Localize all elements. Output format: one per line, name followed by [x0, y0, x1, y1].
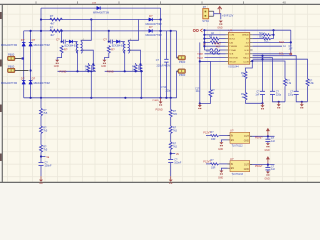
- capacitor C 272: [270, 91, 282, 97]
- resistor col41 c: [40, 145, 48, 152]
- wire top net bus: [204, 29, 291, 31]
- connector P600 no2: [8, 65, 29, 73]
- svg-text:C?: C?: [103, 37, 107, 41]
- svg-text:+5VF12V: +5VF12V: [222, 13, 233, 17]
- power +5V symbol: [218, 7, 234, 18]
- junction conn2: [30, 69, 32, 71]
- capacitor col170: [168, 159, 182, 165]
- pin stubs left: [226, 35, 253, 62]
- wire col 296.2 lower: [296, 95, 307, 102]
- resistor col170 a: [169, 110, 177, 117]
- svg-text:7k5: 7k5: [173, 146, 178, 149]
- wire bottom bus: [24, 97, 177, 99]
- svg-text:OUT: OUT: [244, 136, 249, 138]
- resistor R 245 a: [241, 71, 247, 78]
- junction dots stage1: [61, 41, 63, 43]
- svg-text:D?: D?: [93, 1, 97, 5]
- resistor col170 c: [169, 142, 177, 149]
- svg-text:TSB09B: TSB09B: [229, 46, 237, 48]
- svg-text:1uF: 1uF: [289, 49, 294, 51]
- ground stage1: [54, 60, 59, 68]
- wire mid rail: [170, 31, 172, 98]
- ground fuse: [217, 21, 222, 30]
- capacitor reg2 out: [265, 165, 275, 171]
- red circle mark below: [290, 53, 292, 55]
- wire conn2 feed: [177, 71, 178, 98]
- wire reg2 input: [206, 163, 210, 165]
- svg-text:P600: P600: [179, 73, 186, 77]
- svg-text:MRA4007T3M: MRA4007T3M: [146, 23, 162, 26]
- junction aux: [199, 60, 201, 62]
- svg-text:1uF: 1uF: [271, 140, 276, 143]
- svg-text:SYS3: SYS3: [202, 19, 209, 23]
- junction dots stage2: [108, 41, 110, 43]
- power +5V reg2: [266, 156, 270, 165]
- svg-text:R?: R?: [64, 48, 68, 52]
- svg-text:7k5: 7k5: [43, 148, 48, 151]
- wire reg1 gnd: [221, 140, 227, 142]
- wire stage2 secondary bottom: [128, 50, 140, 64]
- transformer T1: [75, 39, 85, 53]
- diode zener stage1: [65, 40, 79, 48]
- svg-text:GND: GND: [218, 149, 223, 151]
- wire col41: [40, 98, 42, 109]
- wire stage2 drop to bus: [140, 71, 142, 98]
- svg-text:220p: 220p: [276, 93, 282, 96]
- svg-text:MRA4007T3M: MRA4007T3M: [34, 44, 50, 47]
- wire vert i2c left: [273, 30, 275, 38]
- resistor R 307: [306, 79, 314, 86]
- wire row 57.5 to cap 272: [253, 57, 273, 59]
- svg-text:T2A?: T2A?: [197, 57, 203, 60]
- wire col 285: [284, 86, 286, 102]
- resistor stage2 gate: [132, 64, 137, 71]
- wire stage1 drop to bus: [90, 71, 92, 98]
- blue label cluster right of IC: [259, 33, 293, 51]
- transistor Q1 stage1: [92, 65, 95, 71]
- resistor i2c pullup 2: [263, 38, 271, 40]
- ground rc 2: [277, 102, 281, 109]
- resistor R 245 b: [241, 93, 247, 100]
- svg-text:MRA4007T3M: MRA4007T3M: [1, 82, 17, 85]
- ground reg2 out: [265, 172, 270, 181]
- wire row 61 to resistor 285: [253, 61, 285, 79]
- svg-text:4k7: 4k7: [50, 22, 55, 26]
- wire stage1 sense resistor leg: [87, 63, 89, 64]
- svg-text:7k5: 7k5: [173, 130, 178, 133]
- wire pullup row1: [253, 34, 263, 36]
- wire col170 net stub: [171, 153, 176, 155]
- wire stage1 top: [62, 41, 63, 43]
- svg-text:U?: U?: [230, 157, 234, 161]
- svg-text:P5Va?: P5Va?: [255, 165, 263, 168]
- resistor reg1: [210, 131, 218, 141]
- wire vert i2c right: [290, 30, 292, 54]
- svg-text:C1?: C1?: [195, 88, 200, 90]
- svg-text:C?: C?: [56, 37, 60, 41]
- bridge diode D5: [29, 38, 50, 47]
- svg-text:GND: GND: [244, 169, 249, 171]
- svg-text:220p: 220p: [166, 90, 172, 93]
- capacitor col41: [39, 162, 53, 168]
- svg-text:4k7: 4k7: [216, 45, 221, 48]
- capacitor reg1 out: [265, 137, 275, 143]
- junction reg1 out: [267, 135, 269, 137]
- svg-text:D?: D?: [32, 76, 36, 80]
- wire stage2 input drop: [108, 31, 110, 42]
- svg-text:U?: U?: [230, 129, 234, 133]
- net cluster labels: [203, 42, 222, 48]
- wire bridge right leg: [30, 31, 32, 98]
- wire stage2 bottom: [105, 70, 143, 72]
- wire stage1 secondary bottom: [81, 50, 93, 64]
- junction dots on buses: [30, 18, 172, 99]
- ground reg1 left: [218, 142, 223, 151]
- wire aux branch: [200, 61, 211, 89]
- svg-text:1uF: 1uF: [271, 168, 276, 171]
- svg-text:MRA4007T3M: MRA4007T3M: [93, 12, 109, 15]
- svg-text:T2GA0: T2GA0: [229, 49, 236, 52]
- wire cap rail upper: [165, 31, 167, 59]
- svg-text:PGND: PGND: [60, 71, 67, 74]
- svg-text:EN: EN: [231, 168, 235, 170]
- resistor col41 b: [40, 126, 48, 133]
- svg-text:IN: IN: [231, 136, 234, 138]
- wire col 245.5: [246, 61, 253, 71]
- resistor R 285: [284, 79, 292, 86]
- ground col41: [39, 176, 43, 183]
- bridge diode D4: [1, 38, 26, 47]
- wire left rail drop: [203, 30, 205, 50]
- wires right of IC (I2C): [253, 30, 291, 54]
- svg-text:100nF: 100nF: [174, 161, 182, 164]
- svg-text:R?: R?: [111, 48, 115, 52]
- capacitor C 296: [288, 91, 299, 97]
- wire col 307.5 lower: [307, 86, 309, 102]
- junction + net label col170: [170, 152, 180, 156]
- junction dots net cluster: [203, 29, 274, 47]
- svg-text:6.8k: 6.8k: [309, 82, 314, 85]
- wire top bus: [41, 7, 161, 9]
- sheet border frame: [0, 4, 320, 182]
- resistor stage2 input: [107, 46, 115, 53]
- resistor stage1 gate: [85, 64, 90, 71]
- diode D2 second bus: [146, 14, 162, 26]
- wire stage1 secondary top to rail: [81, 20, 91, 42]
- svg-text:DRA10: DRA10: [242, 34, 250, 37]
- svg-text:MRA4007T3M: MRA4007T3M: [1, 44, 17, 47]
- wire right rail: [160, 8, 162, 98]
- svg-text:PGND: PGND: [156, 109, 163, 112]
- resistor net row2: [210, 37, 219, 40]
- svg-text:GND: GND: [265, 150, 270, 152]
- svg-text:7k5: 7k5: [43, 130, 48, 133]
- wire stage1 bottom: [58, 70, 96, 72]
- svg-text:D?: D?: [149, 25, 153, 29]
- wire reg2 cap leg: [267, 165, 269, 168]
- svg-text:IN: IN: [231, 164, 234, 166]
- svg-text:GND: GND: [101, 66, 106, 68]
- wire reg1 cap leg: [267, 136, 269, 139]
- wire row6: [205, 53, 226, 55]
- capacitor C 262: [255, 91, 265, 97]
- svg-text:VRLAT: VRLAT: [229, 60, 236, 63]
- svg-text:1.3k: 1.3k: [287, 82, 292, 85]
- sheet background: [0, 0, 320, 186]
- svg-text:MRA4007T3M: MRA4007T3M: [34, 82, 50, 85]
- svg-text:SnB: SnB: [229, 54, 234, 56]
- svg-text:NTC: NTC: [206, 50, 211, 53]
- thermistor net row5: [210, 49, 220, 54]
- svg-text:R?: R?: [50, 26, 54, 30]
- wire col 272.5: [272, 58, 274, 92]
- svg-text:GVB: GVB: [244, 46, 249, 48]
- svg-text:GND: GND: [218, 177, 223, 179]
- capacitor C bulk 220uF: [156, 59, 172, 92]
- svg-text:7k5: 7k5: [43, 112, 48, 115]
- wire reg1 input: [206, 135, 210, 137]
- svg-text:D?: D?: [149, 14, 153, 18]
- wire row2 resistor: [204, 38, 210, 40]
- resistor R1 on second bus: [50, 14, 63, 26]
- wire cap rail lower: [165, 62, 167, 98]
- wire row 46: [253, 45, 282, 47]
- wire reg2 output: [250, 164, 275, 166]
- svg-text:GND: GND: [244, 141, 249, 143]
- wire row5 wavy feed: [204, 49, 210, 51]
- svg-text:GND: GND: [265, 178, 270, 180]
- svg-text:CaOB: CaOB: [243, 61, 249, 63]
- svg-text:BOK4: BOK4: [229, 39, 235, 41]
- wire bridge left leg: [23, 31, 25, 98]
- diode zener stage2: [112, 40, 126, 48]
- wire reg2 gnd: [221, 168, 227, 170]
- net labels SDA/SCL red: [279, 40, 285, 55]
- svg-text:D?: D?: [21, 38, 25, 42]
- wire stage1 gnd leg: [57, 53, 61, 60]
- svg-text:OUT: OUT: [244, 165, 249, 167]
- ground PGND under right rail: [153, 98, 163, 112]
- connector J1 vertical: [202, 5, 214, 23]
- wire second bus: [41, 19, 161, 21]
- connector P600 no3: [177, 56, 186, 64]
- connector P600 no1: [8, 53, 24, 61]
- connector P600 no4: [177, 69, 186, 77]
- wire fuse to power: [214, 11, 221, 19]
- wire conn1 feed: [177, 31, 178, 58]
- ground rc 3: [300, 102, 304, 109]
- svg-text:P600: P600: [179, 60, 186, 64]
- svg-text:TLV76112: TLV76112: [232, 145, 244, 148]
- svg-text:10R: 10R: [211, 138, 216, 141]
- svg-text:SDA: SDA: [279, 40, 285, 44]
- bridge diode D7: [29, 76, 50, 85]
- svg-text:GND: GND: [54, 66, 59, 68]
- capacitor C stage2: [103, 37, 112, 43]
- wire aux rail: [199, 42, 201, 103]
- svg-text:U?: U?: [229, 29, 233, 33]
- wire pullup row2: [253, 38, 263, 40]
- resistor stage1 input: [60, 46, 68, 53]
- ground rc 1: [261, 103, 265, 109]
- wire stage2 secondary top to rail: [128, 20, 138, 42]
- svg-text:4k7: 4k7: [50, 33, 55, 37]
- svg-text:ISO1044: ISO1044: [229, 65, 240, 69]
- svg-text:PGND: PGND: [153, 100, 160, 102]
- wire row3 resistor: [204, 41, 210, 43]
- wire col 262.5: [262, 56, 264, 92]
- junction reg2 out: [267, 164, 269, 166]
- svg-text:COM: COM: [229, 35, 234, 37]
- junction dots rc: [251, 55, 303, 105]
- capacitor C stage1: [56, 37, 65, 43]
- wire SDA row: [253, 41, 291, 43]
- op-amp U1 main IC: [226, 29, 253, 69]
- svg-text:R?: R?: [203, 5, 207, 9]
- ground reg2 left: [218, 171, 223, 180]
- resistor net row3: [210, 41, 219, 44]
- wire row 59.2 to resistor 307: [253, 59, 308, 78]
- wire SCL row: [253, 53, 291, 55]
- wire stage2 gnd leg: [104, 53, 108, 60]
- svg-text:P5Vd?: P5Vd?: [255, 137, 263, 140]
- svg-text:220p: 220p: [288, 93, 294, 96]
- svg-text:PGND: PGND: [107, 71, 114, 74]
- resistor col170 b: [169, 126, 177, 133]
- wire stage1 input drop: [61, 31, 63, 42]
- svg-text:11G: 11G: [245, 54, 249, 56]
- wire stage2 primary bottom drop: [124, 51, 126, 72]
- svg-text:P600: P600: [8, 53, 15, 57]
- svg-text:RVGY0B: RVGY0B: [229, 58, 238, 60]
- svg-text:100nF: 100nF: [45, 164, 53, 167]
- svg-text:1nF: 1nF: [255, 93, 260, 96]
- wire stage1 primary bottom drop: [77, 51, 79, 72]
- svg-text:7k5: 7k5: [173, 113, 178, 116]
- resistor R2 on third bus: [50, 26, 63, 37]
- wire stage2 top: [109, 41, 110, 43]
- ground reg1 out: [265, 143, 270, 152]
- no-ERC marks red: [193, 29, 202, 32]
- svg-text:10R: 10R: [211, 167, 216, 170]
- svg-text:D?: D?: [32, 38, 36, 42]
- diode D3 third bus: [146, 25, 162, 37]
- svg-text:D?: D?: [21, 76, 25, 80]
- svg-text:MRA4007T3M: MRA4007T3M: [146, 34, 162, 37]
- svg-text:TLV76133: TLV76133: [232, 173, 244, 176]
- bridge diode D6: [1, 76, 26, 85]
- pin names inside: [229, 34, 249, 64]
- wire row7: [205, 57, 226, 59]
- wire reg1 output: [250, 135, 275, 137]
- svg-text:EN: EN: [231, 140, 235, 142]
- junction i2c: [290, 41, 292, 43]
- wire row4: [204, 45, 225, 47]
- svg-text:SDA2: SDA2: [259, 36, 266, 39]
- wire third bus: [24, 30, 177, 32]
- wire left feeder vertical: [40, 8, 42, 98]
- junction + net label col41: [40, 155, 50, 159]
- transformer T2: [122, 39, 132, 53]
- wire row1 to IC: [204, 34, 225, 36]
- svg-text:GND: GND: [217, 27, 222, 29]
- svg-text:P600: P600: [8, 65, 15, 69]
- ground aux rail: [198, 104, 202, 110]
- resistor col41 a: [40, 108, 48, 115]
- svg-text:NBow: NBow: [243, 58, 249, 60]
- svg-text:SCL: SCL: [264, 40, 269, 42]
- diode D1 top bus: [93, 1, 110, 15]
- wire row8: [200, 60, 226, 62]
- regulator U3: [228, 157, 253, 176]
- svg-text:SCL2: SCL2: [259, 33, 265, 35]
- ground col170: [169, 176, 173, 183]
- resistor aux branch: [195, 88, 215, 97]
- wire row 55.7 to cap 296: [253, 56, 297, 92]
- wire col41 net stub: [41, 156, 46, 158]
- svg-text:T1B?: T1B?: [197, 53, 203, 56]
- resistor i2c pullup 1: [263, 34, 271, 36]
- resistor reg2: [210, 159, 218, 169]
- svg-text:SCL: SCL: [279, 52, 285, 56]
- power +5V reg1: [266, 128, 270, 137]
- wire col170: [170, 98, 172, 110]
- wire stage2 sense resistor leg: [135, 63, 137, 64]
- svg-text:R?: R?: [50, 14, 54, 18]
- regulator U2: [228, 129, 253, 148]
- svg-text:220uF/400V: 220uF/400V: [157, 64, 171, 67]
- transistor Q2 stage2: [139, 65, 142, 71]
- svg-text:Vb: Vb: [176, 152, 180, 156]
- ground stage2: [101, 60, 106, 68]
